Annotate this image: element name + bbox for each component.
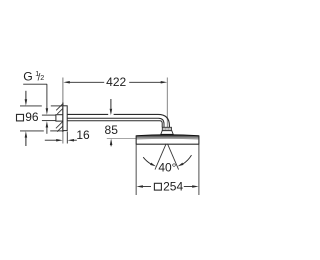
- svg-text:422: 422: [106, 75, 126, 89]
- svg-text:96: 96: [25, 110, 39, 124]
- svg-text:85: 85: [105, 123, 119, 137]
- svg-text:2: 2: [40, 73, 44, 82]
- svg-text:16: 16: [76, 128, 90, 142]
- svg-text:G: G: [23, 69, 32, 83]
- svg-text:254: 254: [163, 180, 183, 194]
- svg-text:40°: 40°: [158, 161, 176, 175]
